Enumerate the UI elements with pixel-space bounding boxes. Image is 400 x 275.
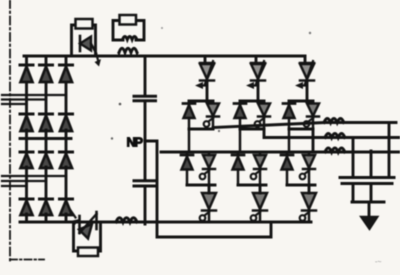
wire leg2 split bar: [240, 100, 264, 103]
thyristor T4: [200, 193, 216, 222]
diode D15: [234, 101, 246, 152]
capacitor C4: [368, 178, 395, 184]
wire DC link vertical: [144, 56, 147, 224]
wire bottom DC bus: [20, 221, 311, 224]
wire output phase V: [264, 129, 399, 138]
choke frame: [113, 21, 144, 41]
wire leg1 lower rejoin: [187, 185, 215, 193]
wire leg3 lower rejoin: [287, 185, 315, 193]
thyristor T2: [204, 101, 219, 129]
inductor L2 (above bus): [119, 48, 137, 52]
thyristor T8: [251, 193, 267, 222]
capacitor C1: [134, 96, 156, 101]
wire leg1 split bar: [189, 100, 213, 103]
inductor L3 (bus coil): [116, 218, 137, 222]
wire leg1 rejoin: [189, 128, 213, 131]
svg-text:NP: NP: [127, 135, 144, 150]
wire choke tail: [119, 53, 137, 57]
thyristor T3: [200, 152, 215, 185]
diode D9: [60, 152, 73, 168]
ground arrow: [361, 217, 379, 230]
thyristor T10: [304, 101, 319, 129]
diode D14: [181, 152, 193, 185]
diode D2: [40, 65, 53, 82]
thyristor Q1 frame: [72, 25, 96, 56]
capacitor C2: [134, 181, 156, 186]
diode D1: [20, 65, 33, 82]
diode D3: [60, 65, 73, 82]
diode D10: [20, 199, 33, 215]
diode D11: [40, 199, 53, 215]
diode D4: [20, 114, 33, 131]
thyristor T12: [300, 193, 316, 222]
wire leg2 lower rejoin: [238, 185, 266, 193]
thyristor Q2 loop: [74, 223, 101, 251]
thyristor Q2: [70, 210, 97, 239]
thyristor T5: [246, 61, 265, 89]
wire leg2 rejoin: [240, 128, 264, 131]
diode D13: [183, 101, 195, 152]
wire leg3 split bar: [289, 100, 313, 103]
wire rectifier column 1: [25, 56, 28, 222]
thyristor Q1: [80, 36, 101, 67]
border dash-dot bottom: [10, 259, 44, 261]
resistor R2 (choke bypass): [120, 15, 137, 25]
inductor L4: [324, 119, 344, 123]
wire 3-phase input set 1: [2, 95, 66, 104]
wire leg3 rejoin: [289, 128, 313, 131]
inductor L5: [325, 134, 345, 138]
svg-text:-~: -~: [375, 259, 381, 266]
diode D5: [40, 114, 53, 131]
wire output phase W: [161, 151, 399, 154]
wire top DC bus: [24, 55, 305, 58]
wire cap feed 2: [370, 151, 373, 177]
thyristor T1: [195, 61, 214, 89]
inductor L6: [325, 148, 345, 152]
diode D16: [232, 152, 244, 185]
diode D12: [60, 199, 73, 215]
wire leg2 top: [256, 56, 258, 101]
resistor R3 (bottom bypass): [78, 248, 98, 257]
thyristor T6: [255, 101, 270, 129]
wire output phase U: [213, 123, 396, 130]
thyristor T11: [300, 152, 315, 185]
wire rectifier column 2: [45, 56, 48, 222]
diode D6: [60, 114, 73, 131]
thyristor T7: [251, 152, 266, 185]
thyristor T9: [295, 61, 314, 89]
diode D8: [40, 152, 53, 168]
diode D17: [283, 101, 295, 152]
wire cap feed 1: [352, 138, 355, 177]
wire 3-phase input set 2: [2, 176, 66, 186]
inductor L1 (inside frame): [123, 37, 137, 40]
wire leg3 output tap: [312, 129, 315, 152]
wire rectifier column 3: [65, 56, 68, 222]
wire NP rail / commutation return: [145, 141, 271, 237]
wire leg3 top: [305, 56, 307, 101]
resistor R1 (top bypass): [76, 19, 93, 29]
wire rectifier midpoint rail: [20, 137, 71, 140]
border dash-dot left: [9, 0, 11, 261]
wire leg1 top: [205, 56, 207, 101]
wire cap bottoms: [352, 184, 384, 218]
diode D18: [281, 152, 293, 185]
diode D7: [20, 152, 33, 168]
capacitor C3: [340, 178, 365, 184]
wire cap feed 3 (L1 elbow): [388, 123, 391, 177]
